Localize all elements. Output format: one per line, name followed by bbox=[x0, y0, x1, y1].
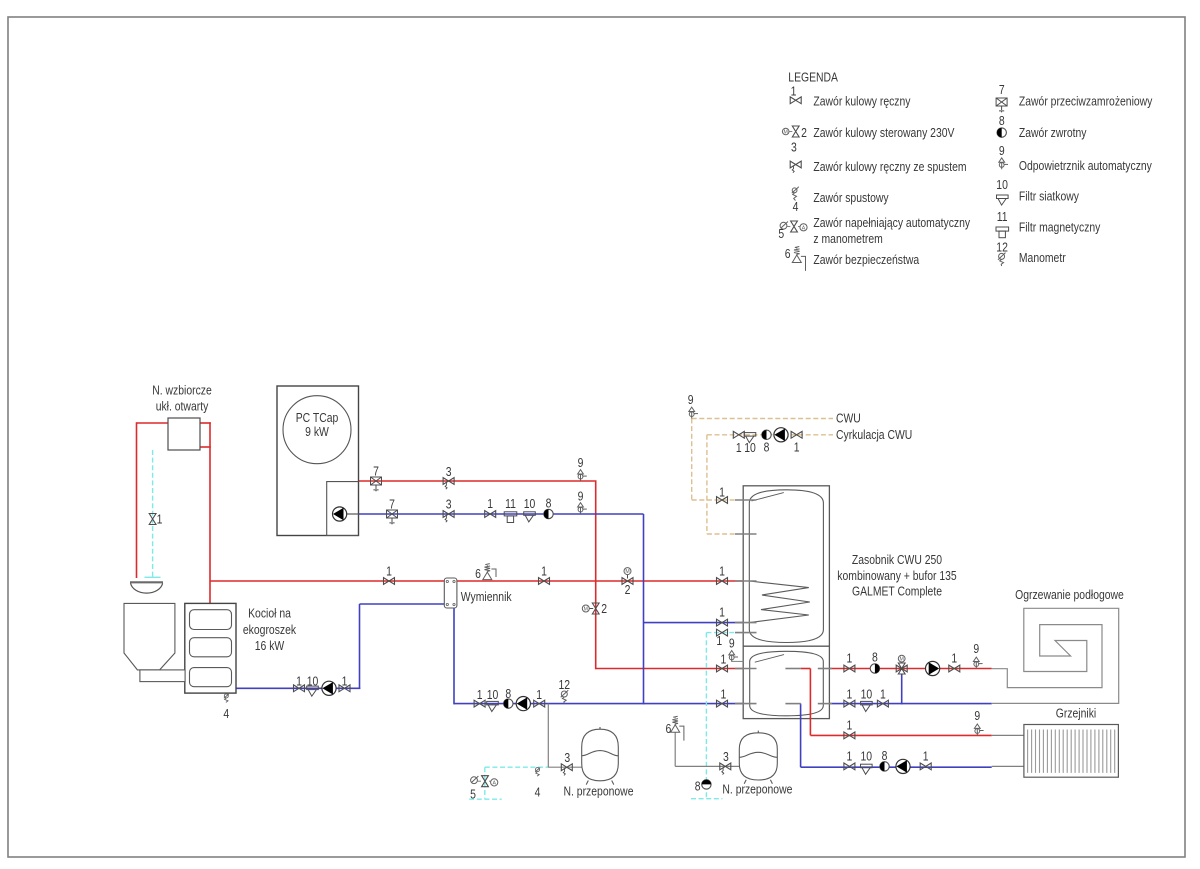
svg-text:Zawór bezpieczeństwa: Zawór bezpieczeństwa bbox=[813, 252, 919, 267]
svg-text:Grzejniki: Grzejniki bbox=[1056, 706, 1097, 721]
ball valve 1 circulation b bbox=[791, 431, 802, 438]
svg-text:Filtr magnetyczny: Filtr magnetyczny bbox=[1019, 220, 1101, 235]
svg-text:7: 7 bbox=[373, 464, 379, 479]
wire blue: floor-heating return bbox=[830, 703, 992, 705]
wire blue: riser to exchanger bbox=[360, 603, 445, 605]
strainer 10 bottom main bbox=[487, 701, 499, 711]
svg-text:1: 1 bbox=[477, 687, 483, 702]
svg-text:2: 2 bbox=[801, 125, 807, 140]
wire blue: drop branch to tank coil return bbox=[644, 622, 745, 624]
vessel 2 membrane bbox=[739, 752, 777, 757]
overflow funnel dish bbox=[130, 581, 163, 583]
boiler Kociol na ekogroszek bbox=[185, 603, 236, 693]
vessel 2 feet bbox=[744, 780, 772, 784]
svg-text:5: 5 bbox=[470, 786, 476, 801]
svg-text:1: 1 bbox=[794, 440, 800, 455]
wire red: PC TCap supply bbox=[359, 480, 597, 482]
svg-text:6: 6 bbox=[475, 566, 481, 581]
wire blue: PC TCap return bbox=[359, 513, 644, 515]
svg-text:Zawór kulowy ręczny: Zawór kulowy ręczny bbox=[813, 94, 910, 109]
svg-text:M: M bbox=[784, 130, 788, 136]
heat pump PC TCap enclosure bbox=[277, 386, 359, 536]
svg-text:LEGENDA: LEGENDA bbox=[788, 69, 838, 84]
svg-text:1: 1 bbox=[847, 651, 853, 666]
wire tan: CWU riser bbox=[691, 419, 693, 501]
wire red: vessel to riser lower bbox=[200, 446, 211, 448]
legend symbol safety valve bbox=[792, 247, 805, 271]
tank stub right floor supply bbox=[818, 668, 832, 670]
wire blue: exchanger drop bbox=[453, 607, 455, 704]
pump circulation bbox=[774, 428, 788, 442]
wire gray: radiator supply stub bbox=[992, 734, 1024, 736]
strainer 10 floor return bbox=[861, 701, 873, 711]
PC TCap circle bbox=[283, 396, 351, 464]
wire gray: pump to PC box edge bbox=[347, 513, 359, 515]
svg-text:10: 10 bbox=[524, 496, 536, 511]
tank stub mid floor return bbox=[785, 703, 801, 705]
wire cyan: fill riser bbox=[484, 767, 486, 798]
svg-text:10: 10 bbox=[744, 440, 756, 455]
svg-text:1: 1 bbox=[342, 673, 348, 688]
antifreeze valve 7 PC supply bbox=[371, 477, 382, 491]
wire red: floor-heating supply bbox=[830, 668, 992, 670]
ball valve 1 cold feed port bbox=[717, 629, 728, 636]
ball valve 1 buffer supply port bbox=[717, 665, 728, 672]
ball valve 1 exchanger-tank bbox=[539, 578, 550, 585]
svg-text:1: 1 bbox=[719, 485, 725, 500]
svg-text:9: 9 bbox=[973, 641, 979, 656]
svg-text:1: 1 bbox=[736, 440, 742, 455]
svg-text:8: 8 bbox=[999, 113, 1005, 128]
lower buffer tank body bbox=[750, 651, 824, 716]
wire red: tank internal elbow top bbox=[801, 668, 811, 670]
svg-text:9: 9 bbox=[729, 636, 735, 651]
valve 3 PC return bbox=[443, 511, 454, 523]
vessel 1 feet bbox=[586, 781, 614, 785]
PC pump enclosure box bbox=[327, 482, 359, 536]
wire red: vessel to riser upper bbox=[200, 422, 211, 424]
tank stub left cold feed bbox=[735, 632, 757, 634]
wire cyan: vessel fill drop bbox=[152, 450, 154, 577]
svg-text:1: 1 bbox=[716, 633, 722, 648]
legend symbol ball valve bbox=[790, 97, 801, 104]
ball valve 1 radiator return bbox=[844, 763, 855, 770]
strainer 10 boiler return bbox=[307, 686, 319, 696]
pump P1 in heat pump bbox=[333, 507, 347, 521]
pump radiator circuit bbox=[896, 759, 910, 773]
svg-text:1: 1 bbox=[487, 496, 493, 511]
svg-text:ukł. otwarty: ukł. otwarty bbox=[156, 399, 209, 414]
wire gray: safety valve drop bbox=[674, 732, 676, 766]
legend symbol magnetic filter bbox=[996, 227, 1009, 238]
open expansion vessel N. wzbiorcze bbox=[168, 418, 200, 450]
tank stub left circulation bbox=[735, 533, 757, 535]
floor heating serpentine coil bbox=[992, 608, 1119, 703]
wire red: PC supply drop bbox=[595, 481, 597, 669]
svg-text:Manometr: Manometr bbox=[1019, 250, 1066, 265]
radiator Grzejniki box bbox=[1024, 725, 1119, 778]
svg-text:7: 7 bbox=[999, 82, 1005, 97]
svg-text:1: 1 bbox=[880, 687, 886, 702]
wire gray: radiator return stub bbox=[992, 765, 1024, 767]
svg-text:5: 5 bbox=[778, 226, 784, 241]
svg-text:Zasobnik CWU 250: Zasobnik CWU 250 bbox=[852, 552, 942, 567]
ball valve 1 coil supply port bbox=[717, 578, 728, 585]
svg-text:12: 12 bbox=[996, 239, 1008, 254]
svg-text:1: 1 bbox=[296, 673, 302, 688]
boiler door 3 bbox=[190, 668, 232, 687]
strainer 10 radiator return bbox=[861, 764, 873, 774]
vessel 1 nipple bbox=[599, 727, 601, 729]
svg-text:1: 1 bbox=[541, 564, 547, 579]
check valve 8 bottom main bbox=[504, 699, 513, 708]
ball valve 1 boiler return bbox=[294, 685, 305, 692]
upper DHW tank body bbox=[749, 490, 823, 643]
wire red: tank internal drop bbox=[809, 669, 811, 736]
svg-text:3: 3 bbox=[723, 749, 729, 764]
tank Zasobnik CWU outer shell bbox=[743, 486, 829, 719]
ball valve 1 boiler return b bbox=[339, 685, 350, 692]
4-way mixing valve with actuator bbox=[896, 655, 907, 674]
drain valve 4 under boiler bbox=[224, 694, 229, 703]
ball valve 1 boiler supply bbox=[384, 578, 395, 585]
svg-text:10: 10 bbox=[861, 687, 873, 702]
wire tan: CWU outlet line bbox=[692, 418, 833, 420]
svg-text:Zawór kulowy ręczny ze spustem: Zawór kulowy ręczny ze spustem bbox=[813, 159, 966, 174]
safety valve 6 at exchanger bbox=[483, 564, 496, 580]
svg-text:8: 8 bbox=[764, 440, 770, 455]
svg-text:z manometrem: z manometrem bbox=[813, 231, 882, 246]
drain valve 4 at vessel 1 bbox=[535, 768, 540, 777]
air vent 9 on PC return bbox=[578, 503, 587, 514]
wire cyan: cold feed to tank port bbox=[706, 632, 737, 634]
svg-text:4: 4 bbox=[535, 785, 541, 800]
wire red: drop to tank mid port bbox=[596, 668, 744, 670]
tank stub left CWU bbox=[735, 499, 757, 501]
svg-text:Wymiennik: Wymiennik bbox=[461, 589, 512, 604]
safety valve 6 tank circuit bbox=[671, 716, 684, 740]
svg-text:ekogroszek: ekogroszek bbox=[243, 622, 297, 637]
wire red: overflow down-pipe bbox=[136, 422, 138, 578]
ball valve 1 bottom main bbox=[474, 700, 485, 707]
ball valve 1 PC return bbox=[485, 511, 496, 518]
svg-text:1: 1 bbox=[157, 512, 163, 527]
lower tank highlight line bbox=[755, 655, 784, 663]
wire tan: circulation riser bbox=[706, 435, 708, 534]
expansion vessel 2 N. przeponowe bbox=[739, 733, 777, 780]
svg-text:1: 1 bbox=[791, 84, 797, 99]
svg-text:Zawór przeciwzamrożeniowy: Zawór przeciwzamrożeniowy bbox=[1019, 94, 1153, 109]
motor valve 2 on PC drop bbox=[582, 603, 599, 614]
svg-text:10: 10 bbox=[996, 177, 1008, 192]
svg-text:11: 11 bbox=[997, 209, 1008, 224]
ball valve 1 floor return bbox=[844, 700, 855, 707]
svg-text:Zawór spustowy: Zawór spustowy bbox=[813, 190, 889, 205]
wire cyan: cold feed riser bbox=[705, 633, 707, 798]
manometer 12 bbox=[561, 690, 569, 703]
legend symbol motorized valve 230V bbox=[782, 128, 789, 135]
ball valve 1 on fill drop bbox=[149, 514, 156, 525]
svg-text:8: 8 bbox=[872, 650, 878, 665]
svg-text:10: 10 bbox=[487, 687, 499, 702]
svg-text:9 kW: 9 kW bbox=[305, 424, 329, 439]
svg-text:9: 9 bbox=[999, 143, 1005, 158]
svg-text:CWU: CWU bbox=[836, 411, 861, 426]
svg-text:1: 1 bbox=[847, 748, 853, 763]
valve 3 vessel 2 bbox=[720, 763, 731, 775]
ball valve 1 floor supply b bbox=[949, 665, 960, 672]
svg-text:6: 6 bbox=[666, 721, 672, 736]
svg-text:1: 1 bbox=[951, 651, 957, 666]
strainer 10 circulation bbox=[744, 433, 756, 443]
wire blue: radiator return bbox=[801, 766, 992, 768]
svg-text:Zawór kulowy sterowany 230V: Zawór kulowy sterowany 230V bbox=[813, 125, 954, 140]
svg-text:N. wzbiorcze: N. wzbiorcze bbox=[152, 383, 212, 398]
upper tank highlight line bbox=[752, 493, 784, 501]
air vent 9 on PC supply bbox=[578, 470, 587, 481]
svg-text:6: 6 bbox=[785, 246, 791, 261]
svg-text:4: 4 bbox=[793, 199, 799, 214]
check valve 8 radiator return bbox=[880, 762, 889, 771]
wire cyan: water-main stub left bbox=[469, 798, 502, 800]
svg-text:1: 1 bbox=[721, 687, 727, 702]
legend symbol strainer bbox=[997, 195, 1009, 205]
tank stub left buffer supply bbox=[735, 668, 757, 670]
svg-text:Filtr siatkowy: Filtr siatkowy bbox=[1019, 188, 1079, 203]
wire red: boiler riser bbox=[209, 422, 211, 603]
wire blue: boiler return riser bbox=[359, 604, 361, 689]
wire red: overflow top to vessel bbox=[137, 422, 169, 424]
wire blue: boiler return bbox=[236, 687, 360, 689]
legend symbol manometer bbox=[998, 253, 1006, 266]
air vent 9 buffer bbox=[729, 651, 738, 662]
tank stub mid floor supply bbox=[785, 668, 801, 670]
ball valve 1 floor supply bbox=[844, 665, 855, 672]
svg-text:8: 8 bbox=[505, 686, 511, 701]
pump boiler circuit bbox=[322, 681, 336, 695]
wire cyan: water-main stub right bbox=[691, 798, 722, 800]
check valve 8 floor supply bbox=[870, 664, 879, 673]
legend symbol air vent bbox=[999, 158, 1008, 169]
wire gray: expansion tee drop bbox=[547, 704, 549, 768]
wire cyan: fill line to junction bbox=[485, 766, 549, 768]
svg-text:2: 2 bbox=[601, 601, 607, 616]
svg-text:3: 3 bbox=[446, 497, 452, 512]
strainer 10 bbox=[524, 512, 536, 522]
feeder chute bbox=[140, 670, 185, 682]
svg-text:3: 3 bbox=[564, 750, 570, 765]
fuel hopper bbox=[124, 603, 175, 670]
boiler door 2 bbox=[190, 638, 232, 657]
svg-text:9: 9 bbox=[688, 392, 694, 407]
wire red: main supply boiler-exchanger-tank bbox=[210, 580, 744, 582]
svg-text:8: 8 bbox=[882, 748, 888, 763]
vessel 1 membrane bbox=[582, 751, 619, 756]
svg-text:1: 1 bbox=[386, 564, 392, 579]
wire blue: bottom return main to tank bbox=[454, 703, 744, 705]
wire blue: PC return drop bbox=[643, 514, 645, 704]
motor valve 2 on supply bbox=[622, 568, 633, 585]
wire blue: tank internal return drop bbox=[800, 704, 802, 768]
radiator fins bbox=[1028, 730, 1115, 773]
legend symbol antifreeze valve bbox=[996, 98, 1007, 112]
svg-text:10: 10 bbox=[861, 748, 873, 763]
svg-text:PC TCap: PC TCap bbox=[296, 410, 339, 425]
legend symbol filling valve assembly bbox=[780, 222, 788, 230]
svg-text:GALMET Complete: GALMET Complete bbox=[852, 584, 942, 599]
svg-text:1: 1 bbox=[536, 687, 542, 702]
valve 3 PC supply bbox=[443, 478, 454, 490]
valve 3 vessel 1 bbox=[561, 764, 572, 776]
svg-text:Zawór napełniający automatyczn: Zawór napełniający automatyczny bbox=[813, 215, 970, 230]
tank stub left coil return bbox=[735, 622, 757, 624]
magnetic filter 11 bbox=[504, 512, 517, 523]
ball valve 1 radiator return b bbox=[920, 763, 931, 770]
air vent 9 floor supply bbox=[973, 657, 982, 668]
check valve 8 circulation bbox=[762, 430, 771, 439]
air vent 9 CWU bbox=[689, 407, 698, 418]
svg-text:N. przeponowe: N. przeponowe bbox=[722, 782, 792, 797]
svg-text:Cyrkulacja CWU: Cyrkulacja CWU bbox=[836, 427, 912, 442]
svg-text:1: 1 bbox=[719, 564, 725, 579]
ball valve 1 circulation bbox=[733, 431, 744, 438]
svg-text:8: 8 bbox=[695, 779, 701, 794]
ball valve 1 radiator supply bbox=[844, 732, 855, 739]
antifreeze valve 7 PC return bbox=[387, 510, 398, 524]
svg-text:1: 1 bbox=[847, 687, 853, 702]
legend symbol valve with drain bbox=[790, 161, 801, 173]
plate heat exchanger Wymiennik bbox=[444, 578, 457, 608]
pump bottom main bbox=[516, 697, 530, 711]
ball valve 1 floor return b bbox=[877, 700, 888, 707]
svg-text:Odpowietrznik automatyczny: Odpowietrznik automatyczny bbox=[1019, 158, 1152, 173]
svg-text:7: 7 bbox=[389, 497, 395, 512]
svg-text:2: 2 bbox=[625, 582, 631, 597]
filling assembly 5: gauge + valve + circle A bbox=[471, 776, 479, 784]
svg-text:1: 1 bbox=[923, 748, 929, 763]
wire blue: mixing valve bypass bbox=[901, 674, 903, 704]
wire tan: CWU to tank top port bbox=[692, 499, 737, 501]
svg-text:kombinowany + bufor 135: kombinowany + bufor 135 bbox=[837, 568, 956, 583]
check valve 8 bbox=[544, 509, 553, 518]
wire red: radiator supply bbox=[810, 734, 991, 736]
wire tan: circulation to tank port bbox=[707, 533, 737, 535]
svg-text:Kocioł na: Kocioł na bbox=[248, 606, 291, 621]
svg-text:N. przeponowe: N. przeponowe bbox=[564, 784, 634, 799]
tank divider line bbox=[743, 645, 829, 647]
check valve 8 cold feed bbox=[702, 780, 711, 789]
svg-text:3: 3 bbox=[446, 464, 452, 479]
svg-text:9: 9 bbox=[578, 455, 584, 470]
air vent 9 radiator supply bbox=[974, 724, 983, 735]
wire gray: to expansion vessel 2 bbox=[675, 765, 739, 767]
svg-text:Zawór zwrotny: Zawór zwrotny bbox=[1019, 125, 1087, 140]
expansion vessel 1 N. przeponowe bbox=[582, 729, 619, 781]
tank stub left buffer return bbox=[735, 703, 757, 705]
svg-text:Ogrzewanie podłogowe: Ogrzewanie podłogowe bbox=[1015, 587, 1124, 602]
svg-text:11: 11 bbox=[505, 496, 516, 511]
ball valve 1 CWU port bbox=[717, 497, 728, 504]
heating coil in upper tank bbox=[749, 581, 810, 623]
svg-text:8: 8 bbox=[546, 496, 552, 511]
svg-text:9: 9 bbox=[974, 708, 980, 723]
svg-text:1: 1 bbox=[719, 605, 725, 620]
boiler door 1 bbox=[190, 610, 232, 630]
svg-text:16 kW: 16 kW bbox=[255, 638, 285, 653]
wire cyan: drop end tick bbox=[145, 576, 161, 578]
ball valve 1 bottom main b bbox=[534, 700, 545, 707]
svg-text:1: 1 bbox=[847, 718, 853, 733]
wire gray: to expansion vessel 1 bbox=[548, 766, 582, 768]
legend symbol drain valve bbox=[792, 187, 799, 201]
svg-text:4: 4 bbox=[223, 706, 229, 721]
svg-text:3: 3 bbox=[791, 140, 797, 155]
ball valve 1 buffer return port bbox=[717, 700, 728, 707]
svg-text:1: 1 bbox=[721, 651, 727, 666]
svg-text:10: 10 bbox=[307, 673, 319, 688]
wire tan: circulation line bbox=[707, 434, 833, 436]
svg-text:9: 9 bbox=[578, 488, 584, 503]
pump floor heating bbox=[926, 661, 940, 675]
legend symbol check valve bbox=[997, 128, 1006, 137]
tank stub left coil supply bbox=[735, 580, 757, 582]
vessel 2 nipple bbox=[757, 731, 759, 733]
ball valve 1 coil return port bbox=[717, 619, 728, 626]
svg-text:12: 12 bbox=[559, 677, 571, 692]
tank stub right floor return bbox=[818, 703, 832, 705]
